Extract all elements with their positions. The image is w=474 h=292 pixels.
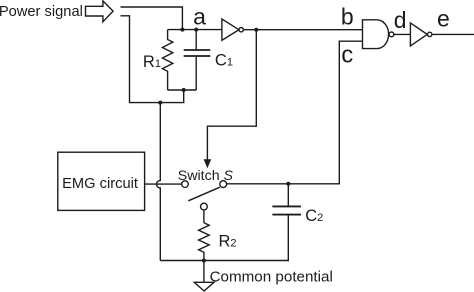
node a junction — [194, 28, 198, 32]
svg-text:EMG circuit: EMG circuit — [62, 176, 138, 192]
capacitor C1 — [195, 30, 197, 50]
feedback wire to switch — [207, 30, 256, 160]
svg-text:Common potential: Common potential — [210, 269, 333, 286]
wire e: inverter output — [432, 33, 474, 35]
resistor R1 — [162, 30, 172, 90]
ground symbol — [194, 282, 214, 291]
bottom common rail — [160, 215, 288, 260]
power signal hollow arrow — [86, 1, 114, 22]
wire: EMG box to switch left terminal — [145, 183, 182, 185]
wire: arrow lower branch down to lower rail — [121, 16, 184, 103]
wire: inverter output to NAND input (node b) — [243, 29, 362, 31]
svg-text:C2: C2 — [305, 207, 323, 225]
junction node on R1C1 bottom rail — [182, 88, 186, 92]
svg-text:e: e — [437, 6, 450, 32]
junction node switch row — [286, 182, 290, 186]
svg-text:b: b — [341, 3, 354, 29]
svg-text:C1: C1 — [215, 52, 233, 70]
svg-text:R2: R2 — [219, 233, 237, 251]
wire: R1C1 bottom rail — [168, 89, 197, 91]
wire: arrow to node a (top) — [121, 7, 183, 30]
wire: R1C1 top rail to inverter input — [168, 29, 222, 31]
svg-text:d: d — [394, 7, 407, 33]
switch blade — [188, 187, 220, 201]
wire d: NAND output to inverter — [394, 33, 411, 35]
resistor R2 — [199, 223, 210, 261]
svg-text:a: a — [193, 4, 206, 30]
left vertical wire with hop over EMG wire — [157, 103, 161, 261]
svg-text:Power signal: Power signal — [0, 4, 83, 20]
arrowhead pointing at switch — [204, 159, 212, 168]
inverter U3 — [410, 23, 427, 46]
junction node on lower rail — [158, 101, 162, 105]
switch S left terminal — [182, 181, 189, 188]
svg-text:R1: R1 — [143, 53, 161, 71]
svg-text:c: c — [341, 41, 353, 68]
inverter U1 — [222, 19, 239, 40]
wire: switch lower terminal to R2 — [203, 210, 205, 223]
junction node feedback — [254, 28, 258, 32]
EMG circuit box — [58, 152, 145, 210]
switch S lower terminal — [201, 203, 208, 210]
capacitor C2 — [287, 184, 289, 206]
wire: c input of NAND from switch row — [227, 41, 363, 184]
wire: rail to ground — [203, 261, 205, 283]
NAND gate U2 — [363, 20, 389, 49]
junction node top rail left — [180, 28, 184, 32]
junction node bottom rail — [202, 259, 206, 263]
switch S right terminal — [220, 181, 227, 188]
